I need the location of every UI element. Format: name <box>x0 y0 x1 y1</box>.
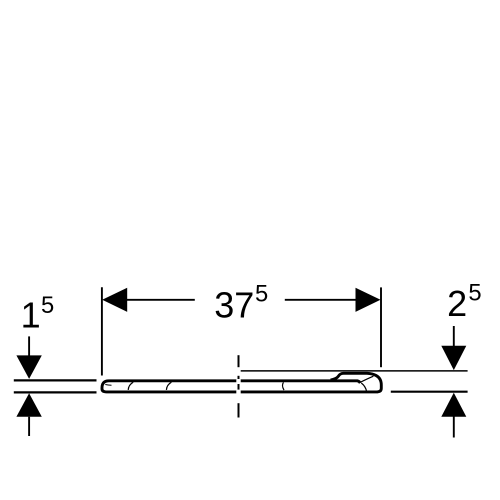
seat front edge arc to lid cap <box>360 376 374 382</box>
seat front edge arc to bottom <box>361 383 366 392</box>
svg-text:5: 5 <box>255 281 268 308</box>
svg-text:2: 2 <box>447 283 467 324</box>
seat profile: left body outline (top edge, left cap, bottom edge) <box>102 381 236 392</box>
dimension 37.5: dimension line right segment <box>285 299 357 301</box>
dimension 1.5: bottom reference line <box>14 391 97 393</box>
seat profile: inner contour mark 2 <box>166 382 171 390</box>
dimension 37.5: right extension line <box>380 287 382 367</box>
dimension 2.5: bottom reference line <box>391 391 468 393</box>
dimension 37.5: left extension line <box>101 287 103 375</box>
centerline dash segment 3 <box>238 384 240 390</box>
centerline dash segment 4 <box>238 403 240 417</box>
seat profile: inner contour mark 1 <box>128 382 133 390</box>
dimension 37.5: dimension line left segment <box>125 299 195 301</box>
centerline dash segment 1 <box>238 355 240 367</box>
seat profile: bottom edge right of centerline <box>241 390 378 393</box>
dimension 1.5: upward arrowhead <box>16 393 41 416</box>
svg-text:37: 37 <box>214 284 254 325</box>
dimension 2.5: lower leader line <box>453 416 455 438</box>
svg-text:5: 5 <box>41 292 54 319</box>
dimension 2.5: upper leader line <box>453 326 455 347</box>
centerline dash segment 2 <box>238 376 240 379</box>
dimension 2.5: upward arrowhead <box>441 393 466 417</box>
dimension 1.5: downward arrowhead <box>16 355 41 379</box>
seat profile: top edge right of centerline with front curl <box>241 381 361 383</box>
seat profile: left cap inner edge line <box>105 384 111 387</box>
dimension 1.5: lower leader line <box>28 417 30 436</box>
lid profile: step, top edge and right end cap <box>331 373 382 392</box>
dimension 37.5: left arrowhead <box>102 288 127 312</box>
dimension 37.5: right arrowhead <box>356 288 381 312</box>
dimension 2.5: top reference line (long thin line over lid) <box>241 370 468 372</box>
dimension 2.5: downward arrowhead <box>441 346 466 370</box>
dimension 1.5: upper leader line <box>28 336 30 356</box>
svg-text:1: 1 <box>21 295 41 336</box>
seat profile: inner contour mark 3 (right half) <box>282 382 284 390</box>
dimension 1.5: top reference line <box>14 379 97 381</box>
svg-text:5: 5 <box>468 279 481 306</box>
